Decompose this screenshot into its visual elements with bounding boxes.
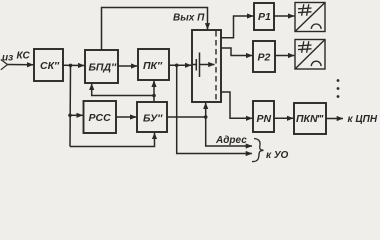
phone set 1 [295, 3, 325, 32]
svg-text:БУ″: БУ″ [143, 113, 163, 125]
wire БУ out to node [167, 116, 206, 118]
svg-text:КС: КС [17, 51, 31, 62]
svg-text:Вых П: Вых П [173, 13, 205, 24]
wire ПКN to ЦПН [326, 118, 343, 120]
block БПД'' [85, 50, 118, 83]
wire СК to БПД [63, 64, 84, 66]
switch contact bars [192, 53, 200, 78]
wire node left and up into БПД bottom [92, 84, 154, 96]
wire Р2 to phone2 [275, 55, 294, 57]
svg-text:из: из [2, 53, 13, 64]
node after СК [69, 64, 73, 68]
wire switch to РN [221, 92, 252, 118]
svg-text:РСС: РСС [89, 112, 112, 124]
wire bottom feedback to БУ [70, 133, 155, 147]
block РСС [84, 101, 117, 133]
brace к УО [252, 139, 264, 162]
phone set 2 [295, 40, 325, 70]
svg-text:ПКN‴: ПКN‴ [296, 113, 324, 125]
svg-text:СК″: СК″ [40, 60, 60, 72]
ellipsis dots [337, 79, 340, 98]
wire БПД to ПК [118, 65, 137, 67]
switch dashed line [215, 31, 217, 101]
block ПКN''' [294, 103, 326, 134]
block РN [253, 101, 274, 132]
wire РN to ПКN [274, 117, 293, 119]
wire input to СК [8, 64, 34, 66]
block Р2 [253, 41, 275, 72]
svg-text:РN: РN [257, 113, 272, 125]
svg-text:Р2: Р2 [258, 52, 271, 64]
wire address line 2 down and right [177, 65, 252, 153]
block ПК'' [138, 49, 169, 80]
wire node up into switch bottom [205, 103, 207, 117]
svg-text:Р1: Р1 [258, 11, 271, 23]
block Р1 [254, 3, 274, 30]
svg-text:БПД″: БПД″ [89, 62, 118, 74]
wire node up into ПК bottom [153, 81, 155, 96]
svg-text:ПК″: ПК″ [143, 60, 163, 72]
wire Р1 to phone1 [274, 15, 294, 17]
block СК'' [34, 49, 63, 81]
wire switch to Р2 [221, 48, 252, 56]
svg-text:к ЦПН: к ЦПН [348, 114, 378, 125]
wire node to РСС [70, 114, 83, 116]
node right of БУ [204, 115, 208, 119]
svg-text:Адрес: Адрес [215, 135, 247, 146]
node above БУ [152, 94, 156, 98]
node after ПК [175, 64, 179, 68]
block БУ'' [137, 102, 167, 132]
wire ПК to switch [169, 64, 191, 66]
wire switch to Р1 [221, 16, 253, 38]
wire address line 1 down and right [206, 117, 252, 146]
wire БПД top to rail into switch top [102, 8, 208, 51]
switch block Вых П [192, 30, 221, 102]
node before РСС [68, 114, 72, 118]
input chevron from КС [1, 60, 8, 70]
wire РСС to БУ [116, 116, 136, 118]
wire БУ top up to node [153, 96, 155, 103]
switch internal arrow [200, 64, 215, 66]
svg-text:к УО: к УО [266, 150, 288, 161]
wire node down to РСС branch [69, 65, 72, 146]
